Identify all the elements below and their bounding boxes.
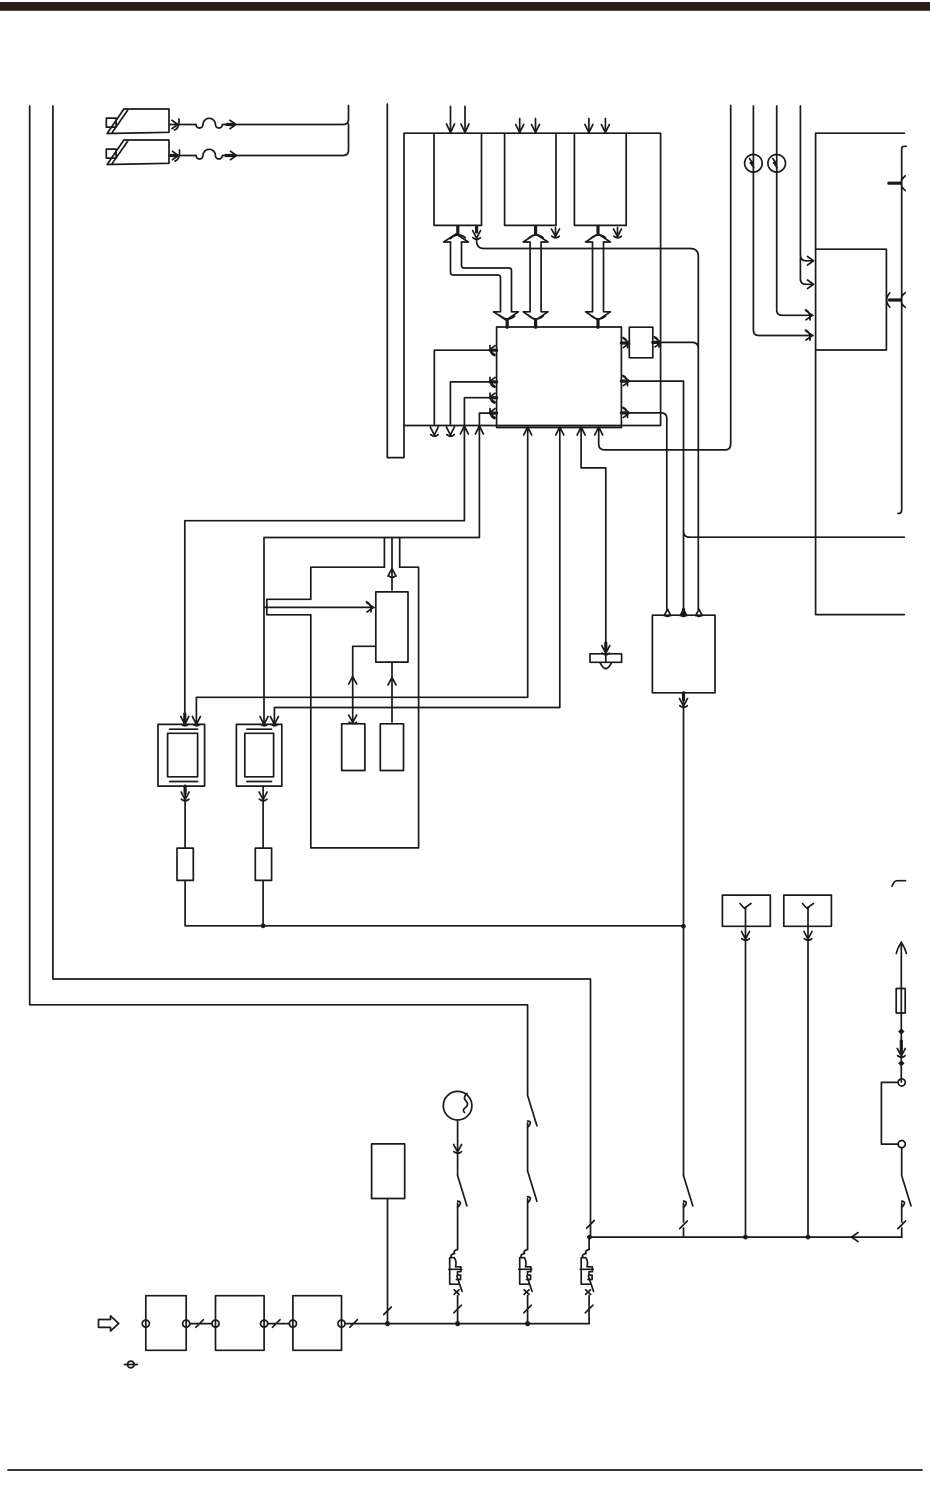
- wire U1 to U2: [621, 338, 629, 348]
- relay box row: box B: [212, 1296, 268, 1351]
- U1 bottom pin wire to connector bar: [577, 427, 610, 655]
- motor1 output wire and resistor R1: [177, 786, 683, 926]
- wire left bus A (down to lower-left switch branch 2): [30, 106, 528, 1096]
- door lock motor 2: [236, 724, 281, 786]
- junction box output wire down to switch branch: [680, 693, 688, 1176]
- door lock motor 1: [158, 724, 205, 786]
- junction box lower right: [652, 615, 715, 693]
- control unit U1 (centre): [497, 327, 622, 428]
- input wires into block 1: [447, 106, 470, 132]
- right-hand module inner unit: [816, 249, 887, 350]
- motor2 output wire and resistor R2: [255, 786, 271, 928]
- indicator unit Y1: [722, 895, 770, 1239]
- ground bus wire lower right: [589, 1233, 902, 1242]
- wire module M1 bottom to resistor block 2: [388, 662, 396, 722]
- switch branch 2 (double switch): [528, 1096, 537, 1250]
- resistor block 1: [342, 724, 365, 771]
- harness enclosure (dashed-out area mid page): [267, 567, 419, 848]
- relay module M1 (in enclosure): [376, 592, 408, 662]
- wire U2 output to node column: [653, 337, 699, 349]
- wire drop into module M1: [388, 538, 396, 591]
- wire code slash on junction branch: [680, 1221, 688, 1229]
- terminal bar on right feed: [889, 146, 906, 513]
- U1 right pin 3 wire down to junction box: [621, 407, 666, 610]
- right-hand module outer frame (cut by page edge): [816, 133, 905, 614]
- blower motor: [443, 1091, 472, 1120]
- U1 left pin 3 wire down-left to door relay 1: [181, 393, 497, 726]
- footer rule: [8, 1469, 922, 1471]
- motor branch wire and switch: [454, 1120, 467, 1250]
- bus arrow block2 to control unit: [523, 227, 548, 328]
- junction module outer frame (top centre): [404, 133, 661, 425]
- interface box U2 beside U1: [629, 327, 653, 358]
- U1 bottom pin wire to relay1 second terminal: [192, 427, 531, 726]
- wire from key 1 with inline connector: [170, 106, 349, 131]
- wire from box C to ground rail: [345, 1320, 589, 1328]
- key cylinder switch 2: [106, 140, 169, 165]
- ECU block 3: [574, 133, 626, 225]
- U1 left pin 2 wire to frame bottom: [446, 377, 496, 436]
- indicator unit Y2: [784, 895, 832, 1239]
- lamp L2: [768, 155, 786, 173]
- key cylinder switch 1: [106, 109, 169, 134]
- ECU block 1: [434, 133, 482, 225]
- thermal breaker on branch 3: [580, 1250, 593, 1324]
- stray wire hook fragment top right of fuse column: [892, 881, 906, 887]
- U1 bottom pin wire up right side: [595, 106, 731, 450]
- wire A-B with code slash: [190, 1320, 212, 1328]
- wire long feed to right connector (from U1 right pin2): [684, 531, 905, 537]
- wire block1 output to far node: [473, 227, 699, 611]
- U1 bottom pin wire to relay2 second terminal: [270, 427, 563, 726]
- enclosure pass-through chimney: [384, 539, 399, 568]
- feed wire with two hook taps to right module pins 1-2: [800, 106, 813, 289]
- switch branch 3 (from left bus B): [587, 1221, 595, 1250]
- U1 right pin 2 wire down to junction box: [621, 376, 683, 610]
- wire module M1 side to resistor block 1: [349, 646, 376, 724]
- connector jumper with terminals: [881, 1079, 905, 1176]
- page-link block arrow: [99, 1316, 119, 1331]
- relay box row: box C: [289, 1296, 345, 1351]
- wire stub left of outer frame: [387, 104, 404, 458]
- bus arrow block1 to control unit: [444, 227, 519, 328]
- thermal breaker on motor branch: [449, 1250, 462, 1327]
- switch on junction branch: [684, 1176, 693, 1222]
- header bar: [0, 2, 930, 11]
- lamp wire 1 to right module pin 4: [753, 106, 813, 340]
- wire left bus B (down to lower-left switch branch 3): [53, 106, 591, 1222]
- input arrows into block 2: [516, 119, 540, 133]
- connector bar terminal: [590, 654, 622, 669]
- junction box input arrows: [664, 609, 702, 616]
- U1 left pin 1 wire to frame bottom: [430, 346, 496, 437]
- relay box row: box A: [142, 1296, 190, 1351]
- U1 left pin 4 wire down-left to door relay 2: [260, 409, 497, 726]
- switch on right column: [898, 1176, 911, 1238]
- wire through notch into module M1: [264, 602, 374, 612]
- resistor block 2: [380, 724, 403, 771]
- ground terminal symbol: [124, 1361, 137, 1368]
- lamp wire 2 to right module pin 3: [777, 106, 813, 320]
- wire B-C with code slash: [268, 1320, 290, 1328]
- fuse feed column right side: [896, 942, 906, 1082]
- sensor block above rail: [372, 1144, 405, 1326]
- bus arrow block3 to control unit: [586, 227, 611, 328]
- thermal breaker on branch 2: [519, 1250, 532, 1327]
- stub arrow under block 2: [552, 228, 560, 238]
- stub arrow under block 3: [614, 228, 622, 238]
- lamp L1: [745, 155, 763, 173]
- input arrows into block 3: [585, 119, 610, 133]
- wire from key 2 with inline connector: [170, 124, 349, 161]
- connector pin symbol on inner unit right edge: [887, 293, 906, 308]
- ECU block 2: [505, 133, 556, 225]
